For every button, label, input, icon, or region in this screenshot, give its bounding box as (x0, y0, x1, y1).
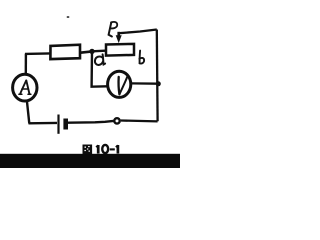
wire switch to bottom-right corner (121, 119, 158, 122)
ink speck (67, 16, 70, 18)
battery long plate (57, 115, 59, 134)
black band (0, 154, 180, 168)
wire node a down and to voltmeter left lead (92, 51, 107, 86)
wiper P arrow (117, 32, 120, 37)
caption text 10-1 (96, 145, 118, 154)
resistor R (50, 45, 80, 59)
wire wiper to top-right corner (118, 30, 157, 34)
voltmeter V (108, 71, 131, 97)
wire top-left horizontal (25, 52, 50, 55)
ammeter A (13, 74, 37, 101)
wire battery to switch (68, 121, 114, 123)
wire right vertical (156, 30, 159, 122)
wire voltmeter right lead (132, 82, 159, 85)
switch contact circle (114, 118, 119, 123)
wire bottom-left to battery (29, 122, 58, 125)
node a junction dot (89, 49, 94, 54)
wire left vertical (25, 54, 28, 74)
battery short thick plate (63, 119, 68, 130)
label a (95, 54, 105, 65)
rheostat body (a-b track) (106, 44, 134, 56)
wire node a to rheostat (92, 50, 105, 53)
label P (109, 22, 118, 37)
wire resistor to node a (80, 51, 92, 52)
wire ammeter down to bottom-left corner (27, 102, 29, 124)
label b (139, 51, 144, 64)
junction dot right (156, 81, 161, 86)
caption glyph 图 (83, 145, 93, 155)
